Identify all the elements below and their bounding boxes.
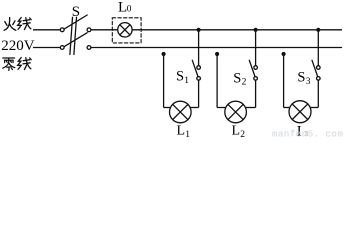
svg-text:2: 2: [240, 130, 245, 138]
switch S (double-pole) top blade: [64, 15, 87, 29]
switch S2: [254, 66, 258, 70]
svg-text:2: 2: [242, 78, 247, 88]
wire live middle segment (switch to lamp L0): [91, 29, 118, 31]
switch S terminal top-left: [60, 28, 64, 32]
switch S bottom blade: [64, 33, 87, 47]
lamp L0: [118, 23, 132, 37]
lamp L0 dashed box: [112, 18, 141, 43]
node neutral-L2 junction dot: [215, 52, 219, 56]
label huoxian (live wire): [4, 18, 16, 31]
wire branch1 lamp right stub: [190, 107, 199, 109]
node live-S1 junction dot: [197, 28, 201, 32]
label lingxian (neutral wire): [3, 58, 15, 70]
lamp L3: [289, 101, 311, 123]
svg-text:1: 1: [185, 130, 190, 138]
wire live right segment: [132, 29, 342, 31]
svg-text:S: S: [233, 71, 241, 87]
wire branch1 below S1: [198, 80, 200, 107]
node live-S3 junction dot: [316, 28, 320, 32]
wire neutral left segment: [33, 47, 60, 49]
switch S terminal bottom-left: [60, 46, 64, 50]
svg-text:220V: 220V: [1, 38, 35, 54]
lamp L2: [225, 101, 247, 123]
switch S3: [317, 66, 321, 70]
svg-text:0: 0: [127, 5, 132, 15]
wire branch3 switch drop: [317, 30, 319, 66]
wire branch2 switch drop: [255, 30, 257, 66]
wire branch1 lamp left stub: [164, 107, 171, 109]
switch S terminal bottom-right: [87, 46, 91, 50]
wire neutral right segment: [91, 47, 342, 49]
node neutral-L3 junction dot: [282, 52, 286, 56]
wire live left segment: [33, 29, 60, 31]
wire branch1 switch drop: [198, 30, 200, 66]
wire branch2 return riser: [216, 53, 218, 107]
switch S link bar 2: [74, 17, 77, 54]
svg-text:S: S: [297, 70, 305, 86]
svg-text:L: L: [232, 123, 241, 138]
wire branch2 lamp right stub: [245, 107, 255, 109]
wire branch1 return riser: [163, 53, 165, 107]
switch S terminal top-right: [87, 28, 91, 32]
svg-text:1: 1: [184, 76, 189, 86]
svg-text:3: 3: [306, 77, 311, 87]
wire branch3 lamp left stub: [284, 107, 290, 109]
wire branch3 return riser: [283, 53, 285, 107]
svg-text:S: S: [176, 69, 184, 85]
wire branch2 below S2: [255, 80, 257, 107]
lamp L1: [170, 101, 192, 123]
switch S link bar 1: [70, 17, 73, 54]
wire branch3 below S3: [317, 80, 319, 107]
svg-text:L: L: [177, 123, 186, 138]
switch S1: [197, 66, 201, 70]
svg-text:S: S: [72, 4, 80, 20]
wire branch2 lamp left stub: [217, 107, 226, 109]
node neutral-L1 junction dot: [162, 52, 166, 56]
svg-text:manfen5. com: manfen5. com: [272, 129, 343, 138]
wire branch3 lamp right stub: [310, 107, 318, 109]
node live-S2 junction dot: [254, 28, 258, 32]
